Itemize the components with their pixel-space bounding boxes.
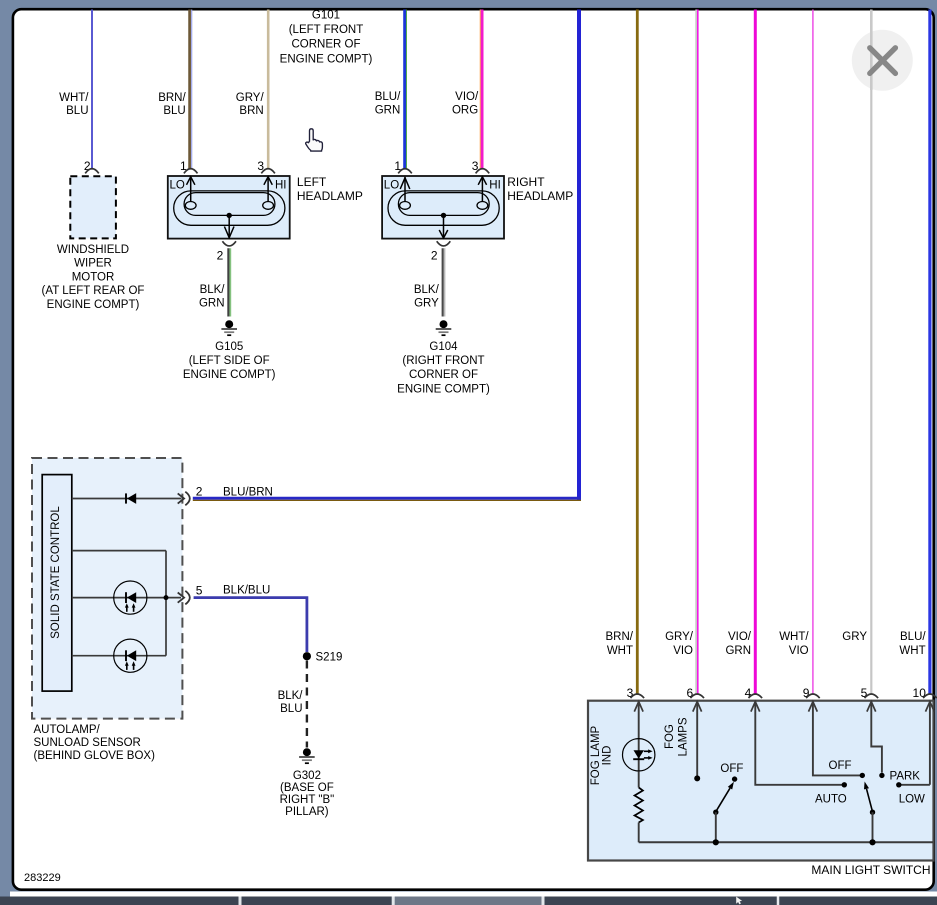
pin 5 sensor connector <box>178 584 271 605</box>
ground G105 <box>183 320 276 381</box>
svg-text:2: 2 <box>196 485 203 499</box>
wire VIO/ORG <box>452 10 482 170</box>
svg-text:BLU/: BLU/ <box>375 91 401 103</box>
svg-text:ORG: ORG <box>452 105 478 117</box>
pin 2 left headlamp bottom connector <box>217 241 236 262</box>
pin 6 switch connector <box>687 686 704 700</box>
pin 3 switch connector <box>627 686 644 700</box>
bottom white gap <box>10 892 937 897</box>
wire BLK/BLU dashed to ground <box>278 661 307 748</box>
svg-text:FOG: FOG <box>664 724 676 749</box>
svg-text:(AT LEFT REAR OF: (AT LEFT REAR OF <box>42 285 145 297</box>
svg-text:GRN: GRN <box>199 298 225 310</box>
svg-text:HI: HI <box>275 179 287 191</box>
pin 6 entry arrow / fog lamps contact <box>664 702 702 782</box>
svg-text:RIGHT: RIGHT <box>507 175 545 189</box>
svg-text:(LEFT SIDE OF: (LEFT SIDE OF <box>189 355 270 367</box>
pin 9 entry arrow / off contact <box>809 702 866 779</box>
pin 5 switch connector <box>861 686 878 700</box>
wire WHT/BLU <box>59 10 92 170</box>
svg-text:CORNER OF: CORNER OF <box>409 369 478 381</box>
svg-text:GRN: GRN <box>725 645 751 657</box>
svg-text:WHT/: WHT/ <box>59 92 89 104</box>
wire BRN/BLU <box>158 10 191 170</box>
wire BLK/BLU blue run <box>194 598 307 652</box>
svg-text:LEFT: LEFT <box>297 175 327 189</box>
svg-text:BLU/BRN: BLU/BRN <box>223 486 273 498</box>
windshield wiper motor box <box>42 176 145 311</box>
wire GRY <box>842 10 871 695</box>
pin 1 right headlamp connector <box>394 159 411 173</box>
svg-text:WIPER: WIPER <box>74 258 112 270</box>
pin 3 right headlamp connector <box>472 159 489 173</box>
wire WHT/VIO <box>779 10 813 695</box>
svg-text:VIO: VIO <box>789 645 809 657</box>
svg-text:VIO/: VIO/ <box>455 91 479 103</box>
pin 10 switch connector <box>913 686 937 700</box>
svg-text:WHT: WHT <box>899 645 925 657</box>
diode D1 <box>126 493 136 504</box>
svg-text:G302: G302 <box>293 770 321 782</box>
svg-text:BLU: BLU <box>163 105 185 117</box>
svg-text:VIO: VIO <box>673 645 693 657</box>
lamp LEFT HEADLAMP <box>168 175 363 239</box>
wire BRN/WHT <box>606 10 638 695</box>
svg-text:S219: S219 <box>316 652 343 664</box>
svg-text:CORNER OF: CORNER OF <box>292 39 361 51</box>
pin 9 switch connector <box>803 686 820 700</box>
node G101 label <box>280 9 373 65</box>
photodiode PD2 <box>114 639 147 672</box>
svg-text:(BEHIND GLOVE BOX): (BEHIND GLOVE BOX) <box>34 750 156 762</box>
pin 4 entry arrow / auto contact <box>751 702 847 806</box>
svg-text:SUNLOAD SENSOR: SUNLOAD SENSOR <box>34 737 141 749</box>
svg-text:WINDSHIELD: WINDSHIELD <box>57 244 129 256</box>
pin 4 switch connector <box>745 686 762 700</box>
pin 2 wiper connector <box>84 159 99 173</box>
svg-text:2: 2 <box>431 249 438 263</box>
wire GRY/VIO <box>665 10 698 695</box>
svg-text:MAIN LIGHT SWITCH: MAIN LIGHT SWITCH <box>811 863 930 877</box>
ground G104 <box>397 320 490 395</box>
svg-text:HI: HI <box>489 179 501 191</box>
svg-text:AUTO: AUTO <box>815 793 847 805</box>
svg-text:MOTOR: MOTOR <box>72 271 115 283</box>
svg-text:BLK/: BLK/ <box>278 690 304 702</box>
svg-text:BLU: BLU <box>280 703 302 715</box>
svg-text:WHT: WHT <box>607 645 633 657</box>
cursor hand <box>306 129 323 151</box>
svg-text:283229: 283229 <box>24 872 61 884</box>
svg-text:FOG LAMP: FOG LAMP <box>590 725 602 785</box>
svg-text:2: 2 <box>217 249 224 263</box>
svg-text:WHT/: WHT/ <box>779 631 809 643</box>
svg-text:BLU/: BLU/ <box>900 631 926 643</box>
wire GRY/BRN <box>236 10 268 170</box>
svg-text:PILLAR): PILLAR) <box>285 806 329 818</box>
solid state control block U1 <box>42 475 72 691</box>
svg-text:OFF: OFF <box>720 763 743 775</box>
svg-text:GRY/: GRY/ <box>236 92 265 104</box>
photodiode PD1 <box>114 581 147 614</box>
resistor R1 <box>635 772 643 843</box>
wire BLU/GRN <box>375 10 407 170</box>
led FOG LAMP IND <box>590 725 655 785</box>
svg-text:HEADLAMP: HEADLAMP <box>297 189 363 203</box>
svg-text:BRN/: BRN/ <box>158 92 186 104</box>
lamp RIGHT HEADLAMP <box>382 175 573 239</box>
svg-text:G101: G101 <box>312 9 340 21</box>
wire BLK/GRY <box>414 248 445 316</box>
svg-text:GRN: GRN <box>375 105 401 117</box>
svg-text:(BASE OF: (BASE OF <box>280 782 334 794</box>
svg-text:BLK/: BLK/ <box>200 284 226 296</box>
wire bus bottom <box>639 841 933 843</box>
svg-text:ENGINE COMPT): ENGINE COMPT) <box>397 383 490 395</box>
svg-text:LOW: LOW <box>899 793 925 805</box>
svg-text:GRY: GRY <box>414 298 439 310</box>
pin 5 entry arrow / park contact <box>867 702 920 783</box>
pin 2 right headlamp bottom connector <box>431 241 450 262</box>
pin 10 entry arrow / low contact <box>896 702 934 806</box>
bottom taskbar <box>0 897 937 905</box>
wire BLU/BRN corner run to sensor <box>193 10 581 501</box>
svg-text:IND: IND <box>602 746 614 766</box>
pin 2 sensor connector <box>178 485 273 506</box>
svg-text:5: 5 <box>196 584 203 598</box>
svg-text:G105: G105 <box>215 341 243 353</box>
svg-text:BRN: BRN <box>239 105 263 117</box>
wire VIO/GRN <box>725 10 755 695</box>
svg-text:RIGHT "B": RIGHT "B" <box>280 794 335 806</box>
svg-text:BRN/: BRN/ <box>606 631 634 643</box>
wire BLU/WHT <box>899 10 929 695</box>
pin 3 entry arrow <box>634 702 643 739</box>
svg-text:SOLID STATE CONTROL: SOLID STATE CONTROL <box>50 506 62 639</box>
main light switch box <box>588 701 934 877</box>
svg-text:GRY/: GRY/ <box>665 631 694 643</box>
pin 1 left headlamp connector <box>180 159 197 173</box>
close button <box>852 10 913 91</box>
svg-text:LAMPS: LAMPS <box>678 717 690 756</box>
svg-text:ENGINE COMPT): ENGINE COMPT) <box>47 299 140 311</box>
ground G302 <box>280 748 335 818</box>
svg-text:(RIGHT FRONT: (RIGHT FRONT <box>402 355 484 367</box>
svg-text:PARK: PARK <box>890 771 921 783</box>
svg-text:(LEFT FRONT: (LEFT FRONT <box>289 24 364 36</box>
wire internal loop <box>72 551 181 656</box>
wire BLK/GRN <box>199 248 230 316</box>
svg-text:ENGINE COMPT): ENGINE COMPT) <box>183 369 276 381</box>
svg-text:G104: G104 <box>429 341 458 353</box>
svg-text:AUTOLAMP/: AUTOLAMP/ <box>34 724 101 736</box>
switch SW2 <box>864 782 876 846</box>
svg-text:OFF: OFF <box>829 760 852 772</box>
pin 3 left headlamp connector <box>257 159 274 173</box>
svg-text:BLK/BLU: BLK/BLU <box>223 584 270 596</box>
svg-text:BLK/: BLK/ <box>414 284 440 296</box>
switch SW1 OFF <box>713 763 744 845</box>
wire internal to diode <box>72 498 181 500</box>
svg-text:LO: LO <box>170 179 185 191</box>
svg-text:HEADLAMP: HEADLAMP <box>507 189 573 203</box>
svg-text:ENGINE COMPT): ENGINE COMPT) <box>280 53 373 65</box>
page number <box>24 872 61 884</box>
svg-text:GRY: GRY <box>842 631 867 643</box>
svg-text:BLU: BLU <box>66 105 88 117</box>
node S219 <box>303 652 343 664</box>
svg-text:VIO/: VIO/ <box>728 631 752 643</box>
svg-text:LO: LO <box>384 179 399 191</box>
autolamp/sunload sensor box <box>32 458 182 762</box>
